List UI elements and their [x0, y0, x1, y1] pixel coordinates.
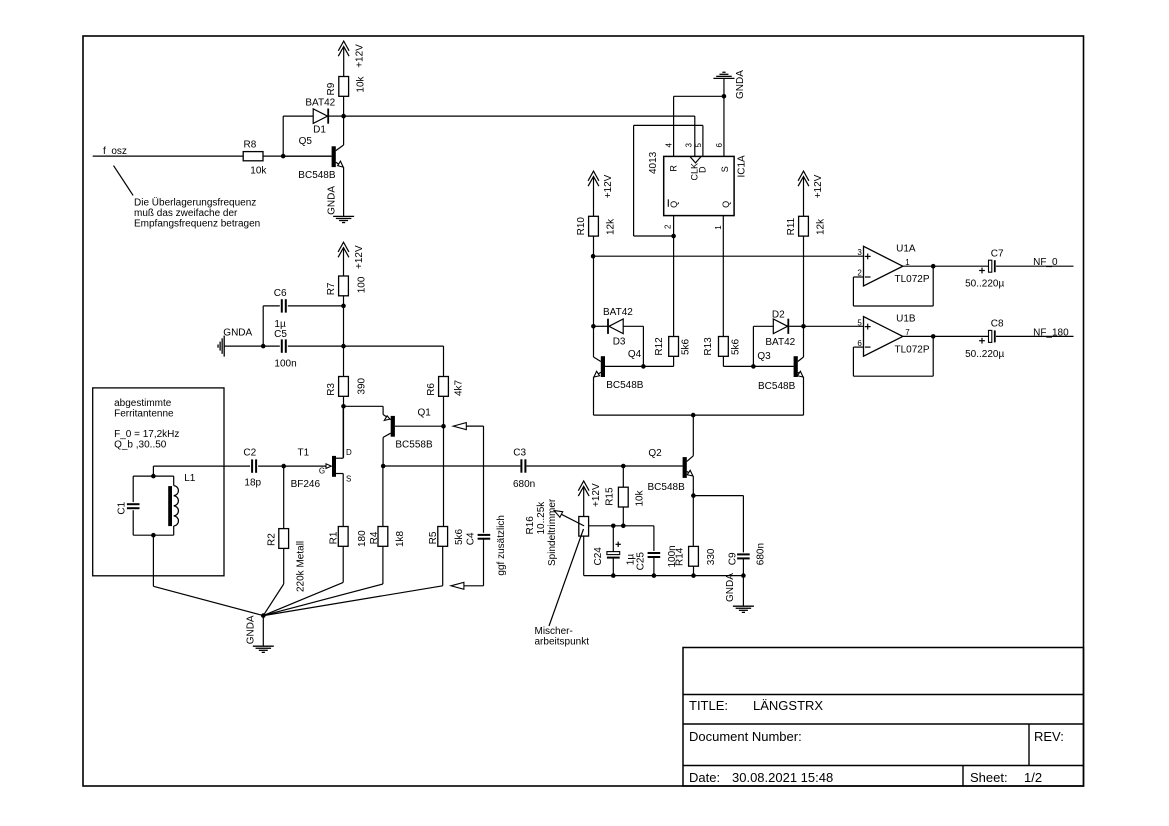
svg-text:2: 2 [857, 269, 862, 278]
svg-text:1: 1 [905, 258, 910, 267]
svg-text:1/2: 1/2 [1024, 770, 1042, 785]
pin 6 S [715, 96, 730, 172]
wire U1A inverting stub [853, 276, 863, 278]
svg-text:330: 330 [706, 548, 717, 565]
junction tank top [151, 474, 156, 479]
svg-text:REV:: REV: [1034, 729, 1064, 744]
node NF_0 [1033, 257, 1058, 268]
svg-text:R: R [668, 165, 678, 172]
supply +12V at R9 [338, 41, 365, 76]
junction D1/R9/Q5 collector [341, 114, 346, 119]
svg-text:Mischer-: Mischer- [535, 626, 573, 637]
tank bottom rail [133, 534, 174, 536]
wire C5 right [288, 345, 344, 347]
junction rail/Q2 collector [691, 413, 696, 418]
wire R15 to wiper line [622, 507, 624, 526]
svg-text:50..220µ: 50..220µ [965, 349, 1004, 360]
svg-text:Empfangsfrequenz betragen: Empfangsfrequenz betragen [134, 219, 260, 230]
ground GNDA at IC [713, 70, 745, 99]
wire C3 to Q2 base [526, 465, 682, 467]
svg-text:R9: R9 [326, 82, 337, 95]
svg-text:10..25k: 10..25k [536, 501, 547, 535]
junction R3 bottom [341, 404, 346, 409]
svg-text:C6: C6 [274, 288, 287, 299]
svg-text:D2: D2 [772, 310, 785, 321]
resistor R11 [786, 216, 826, 236]
svg-text:f_osz: f_osz [103, 146, 127, 157]
wire R12 to base line [605, 356, 674, 366]
svg-text:C1: C1 [116, 501, 127, 514]
svg-text:R13: R13 [703, 337, 714, 356]
wire junction up to D1 anode [283, 116, 313, 156]
diode D1 [305, 98, 335, 136]
wire R16 wiper [589, 525, 654, 527]
resistor R7 [326, 276, 367, 296]
svg-text:Ferritantenne: Ferritantenne [114, 408, 174, 419]
svg-text:Q5: Q5 [299, 136, 313, 147]
wire C6 right [288, 305, 344, 307]
capacitor C6 [274, 288, 287, 330]
svg-text:R14: R14 [675, 547, 686, 566]
wire tank to star ground [153, 535, 263, 615]
capacitor C4 [466, 515, 507, 576]
junction D3 cathode [591, 324, 596, 329]
wire R15 [622, 466, 624, 487]
mixer bottom rail [584, 575, 744, 577]
wire C7 to NF_0 [996, 265, 1074, 267]
resistor R5 [428, 527, 465, 547]
svg-text:180: 180 [357, 530, 368, 547]
wire to D3 [594, 325, 609, 327]
wire emitter rail [594, 414, 804, 416]
svg-text:R10: R10 [576, 217, 587, 236]
sheet text [970, 770, 1042, 785]
supply +12V at R16 [578, 481, 602, 517]
svg-text:+12V: +12V [813, 174, 824, 198]
junction R15 bottom [621, 524, 626, 529]
wire Q2 emitter [692, 476, 694, 546]
tank top rail [133, 475, 174, 477]
svg-text:C8: C8 [991, 319, 1004, 330]
wire Q3 base [753, 365, 793, 367]
note leader line [114, 166, 134, 196]
svg-text:Q4: Q4 [628, 349, 642, 360]
svg-text:abgestimmte: abgestimmte [114, 398, 172, 409]
resistor R13 [703, 337, 741, 357]
transistor Q3 [757, 326, 803, 392]
resistor R12 [654, 337, 692, 357]
svg-text:Spindeltrimmer: Spindeltrimmer [547, 498, 558, 566]
wire Q1 collector to C3 [383, 465, 520, 467]
jfet T1 [291, 406, 352, 526]
wire C9 to ground [742, 576, 744, 607]
svg-text:C5: C5 [274, 329, 287, 340]
svg-text:18p: 18p [244, 478, 261, 489]
svg-text:4013: 4013 [648, 151, 659, 174]
wire f_osz to R8 [93, 155, 244, 157]
wire C4 lower [458, 539, 484, 586]
svg-text:680n: 680n [756, 543, 767, 565]
svg-text:R16: R16 [525, 516, 536, 535]
wire D3 anode to base [623, 326, 643, 366]
node NF_180 [1033, 327, 1069, 338]
junction Q3 base [751, 364, 756, 369]
antenna box [93, 388, 224, 576]
supply +12V at R7 [338, 242, 365, 276]
wire to C9 [693, 496, 743, 553]
svg-text:TL072P: TL072P [895, 344, 930, 355]
wire U1B inverting stub [853, 346, 863, 348]
svg-text:7: 7 [905, 328, 910, 337]
svg-text:BC548B: BC548B [606, 380, 644, 391]
junction C24 bottom [611, 573, 616, 578]
wire D feedback [634, 125, 703, 236]
transistor Q2 [648, 415, 694, 493]
svg-text:3: 3 [857, 248, 862, 257]
resistor R9 [326, 75, 367, 96]
transistor Q4 [594, 326, 644, 391]
wire Q1 base [395, 425, 444, 427]
transistor Q5 [298, 116, 343, 181]
junction U1A output [931, 264, 936, 269]
pin 3 CLK [685, 143, 700, 181]
wire U1A feedback [853, 266, 933, 306]
resistor R6 [426, 377, 464, 397]
svg-text:C7: C7 [991, 249, 1004, 260]
junction R10/opamp line [591, 254, 596, 259]
svg-text:4: 4 [665, 143, 674, 148]
svg-text:R6: R6 [426, 383, 437, 396]
wire R16 bottom [583, 536, 585, 576]
svg-text:BF246: BF246 [291, 479, 321, 490]
svg-text:R15: R15 [605, 487, 616, 506]
svg-text:D: D [697, 166, 707, 173]
svg-text:Die Überlagerungsfrequenz: Die Überlagerungsfrequenz [134, 197, 256, 209]
svg-text:1k8: 1k8 [395, 530, 406, 547]
svg-text:C9: C9 [728, 552, 739, 565]
wire R2 to star ground [263, 548, 283, 615]
capacitor C1 [116, 476, 139, 535]
svg-text:100: 100 [356, 276, 367, 293]
svg-text:6: 6 [715, 143, 724, 148]
wire R9 to junction [343, 96, 345, 116]
diode D3 [603, 307, 633, 348]
svg-text:5k6: 5k6 [454, 528, 465, 545]
svg-text:NF_0: NF_0 [1033, 257, 1058, 268]
capacitor C9 [728, 543, 767, 576]
title block frame [683, 648, 1084, 787]
capacitor C5 [274, 329, 297, 370]
wire R4 top [382, 466, 384, 527]
junction C9 bottom [741, 573, 746, 578]
svg-text:LÄNGSTRX: LÄNGSTRX [753, 698, 823, 713]
capacitor C25 [636, 526, 678, 576]
wire R3 to T1 drain [343, 396, 345, 457]
junction R14 bottom [691, 573, 696, 578]
svg-text:+12V: +12V [354, 245, 365, 269]
resistor R15 [605, 487, 646, 507]
svg-text:Q1: Q1 [418, 408, 432, 419]
antenna text [114, 398, 179, 451]
pin 1 Q [714, 201, 731, 337]
resistor R4 [369, 527, 406, 548]
junction C24 top [611, 524, 616, 529]
svg-text:TITLE:: TITLE: [689, 698, 728, 713]
svg-text:Sheet:: Sheet: [970, 770, 1008, 785]
trimmer R16 [525, 498, 589, 566]
date text [689, 770, 833, 785]
wire U1A output [903, 265, 989, 267]
IC1A clk chevron [690, 156, 701, 163]
svg-text:30.08.2021 15:48: 30.08.2021 15:48 [732, 770, 833, 785]
svg-text:5: 5 [694, 143, 703, 148]
wire R8 to base junction [263, 155, 332, 157]
wire D1 cathode to junction [329, 115, 344, 117]
junction U1B output [931, 334, 936, 339]
junction Q1 base/R6/R5 [441, 424, 446, 429]
resistor R10 [576, 216, 616, 236]
junction base Q5 [281, 154, 286, 159]
svg-text:R8: R8 [244, 139, 257, 150]
svg-text:C3: C3 [513, 447, 526, 458]
svg-text:NF_180: NF_180 [1033, 327, 1069, 338]
svg-text:T1: T1 [298, 448, 310, 459]
svg-text:L1: L1 [184, 473, 196, 484]
supply +12V at R11 [798, 171, 824, 216]
svg-text:Date:: Date: [689, 770, 720, 785]
svg-text:BAT42: BAT42 [765, 337, 795, 348]
svg-text:GNDA: GNDA [327, 186, 338, 215]
wire U1B output [903, 335, 989, 337]
wire U1B feedback [853, 336, 933, 376]
drawing frame [83, 36, 1084, 786]
svg-text:Q: Q [669, 201, 679, 208]
wire R10 to junction [593, 236, 595, 256]
svg-text:2: 2 [663, 224, 672, 229]
wire C6 left [263, 306, 280, 346]
wire base up to D2 [753, 326, 773, 366]
svg-text:GNDA: GNDA [735, 70, 746, 99]
junction R2 top [281, 464, 286, 469]
wire Qbar to R12 [673, 236, 675, 337]
resistor R3 [326, 377, 367, 397]
note text [134, 197, 260, 230]
svg-text:D3: D3 [613, 337, 626, 348]
junction Q4 base [641, 364, 646, 369]
capacitor C24 [593, 526, 637, 576]
junction S/GNDA [722, 94, 727, 99]
wire C8 to NF_180 [996, 335, 1074, 337]
svg-text:G: G [319, 467, 325, 476]
svg-text:3: 3 [685, 143, 694, 148]
wire to U1A noninverting [593, 255, 863, 257]
ground GNDA star [245, 615, 273, 652]
svg-text:Document Number:: Document Number: [689, 729, 802, 744]
supply +12V at R10 [588, 171, 614, 216]
svg-text:10k: 10k [356, 75, 367, 92]
wire Q1 collector junction [381, 464, 386, 469]
svg-text:Q_b ,30..50: Q_b ,30..50 [114, 440, 167, 451]
wire R2 top [283, 466, 285, 528]
text Mischerarbeitspunkt [535, 626, 590, 648]
svg-text:+12V: +12V [603, 174, 614, 198]
wire R5 to star ground [263, 546, 442, 615]
svg-text:BAT42: BAT42 [305, 98, 335, 109]
svg-text:12k: 12k [816, 218, 827, 235]
svg-text:TL072P: TL072P [895, 274, 930, 285]
svg-text:Q: Q [721, 201, 731, 208]
capacitor C7 [965, 249, 1004, 290]
pin 2 Qbar [663, 199, 679, 236]
resistor R1 [328, 527, 368, 548]
svg-text:+12V: +12V [354, 44, 365, 68]
svg-text:Q3: Q3 [757, 351, 771, 362]
capacitor C2 [243, 447, 261, 488]
svg-text:R2: R2 [266, 533, 277, 546]
wire C5 left [224, 345, 280, 347]
transistor Q1 [383, 408, 433, 467]
svg-text:R12: R12 [654, 337, 665, 356]
resistor R8 [243, 139, 267, 176]
svg-text:12k: 12k [606, 218, 617, 235]
wire D2 junction to U1B [804, 325, 864, 327]
junction tank bottom [151, 533, 156, 538]
wire Q5 emitter to ground [343, 167, 345, 216]
arrow C4 lower [451, 582, 464, 589]
svg-text:D: D [346, 448, 352, 457]
svg-text:10k: 10k [635, 489, 646, 506]
inductor L1 [168, 473, 196, 535]
wire R14 bottom [693, 566, 695, 576]
svg-text:R1: R1 [328, 531, 339, 544]
resistor R2 [266, 529, 306, 592]
junction Q2 emitter/C9 [691, 493, 696, 498]
wire R1 to star ground [263, 546, 343, 615]
svg-text:100n: 100n [274, 359, 296, 370]
junction C6 line [341, 304, 346, 309]
wire tank to C2 [153, 466, 250, 476]
svg-text:ggf zusätzlich: ggf zusätzlich [496, 515, 507, 576]
op-amp U1B [857, 314, 930, 357]
op-amp U1A [857, 243, 930, 286]
document number text [689, 729, 1064, 744]
svg-text:5k6: 5k6 [681, 338, 692, 355]
junction C25 bottom [652, 573, 657, 578]
svg-text:10k: 10k [250, 166, 267, 177]
svg-text:GNDA: GNDA [245, 615, 256, 644]
svg-text:R11: R11 [786, 217, 797, 235]
capacitor C3 [513, 447, 535, 490]
pin 5 D [694, 125, 708, 173]
svg-text:U1B: U1B [896, 314, 916, 325]
wire Q3 emitter down [803, 377, 805, 415]
svg-text:390: 390 [356, 377, 367, 394]
svg-text:R7: R7 [326, 282, 337, 295]
svg-text:BC548B: BC548B [758, 381, 796, 392]
IC1A box [648, 151, 748, 215]
svg-text:220k Metall: 220k Metall [296, 541, 307, 592]
wire R6 junction to R5 [443, 426, 445, 526]
svg-text:GNDA: GNDA [725, 573, 736, 602]
node f_osz [103, 146, 127, 157]
wire R10 junction down [593, 256, 595, 326]
svg-text:+12V: +12V [591, 483, 602, 507]
svg-text:C25: C25 [636, 552, 647, 571]
svg-text:BC548B: BC548B [648, 482, 686, 493]
svg-text:GNDA: GNDA [223, 328, 252, 339]
wire R11 to D2 junction [803, 236, 805, 326]
wire C5 line to R6 [344, 346, 444, 376]
svg-text:R4: R4 [369, 531, 380, 544]
svg-text:D1: D1 [313, 124, 326, 135]
arrow C4 upper [453, 423, 483, 533]
title text [689, 698, 823, 713]
ground GNDA mixer [725, 573, 754, 613]
svg-text:muß das zweifache der: muß das zweifache der [134, 208, 238, 219]
pin 4 R [665, 96, 679, 171]
svg-text:S: S [346, 474, 351, 483]
junction Qbar/D [671, 234, 676, 239]
junction D2/R11/U1B [801, 324, 806, 329]
svg-text:BAT42: BAT42 [603, 307, 633, 318]
svg-text:BC558B: BC558B [395, 440, 433, 451]
svg-text:5k6: 5k6 [730, 338, 741, 355]
wire C2 to gate [258, 465, 327, 467]
junction GNDA branch [261, 344, 266, 349]
svg-text:U1A: U1A [896, 243, 916, 254]
wire R3 junction to Q1 emitter [344, 406, 384, 414]
star ground node [261, 613, 266, 646]
svg-text:50..220µ: 50..220µ [965, 279, 1004, 290]
svg-text:R3: R3 [326, 383, 337, 396]
resistor R14 [675, 546, 718, 566]
wire R4 to star ground [263, 546, 383, 615]
svg-text:S: S [720, 166, 730, 172]
svg-text:Q2: Q2 [648, 448, 662, 459]
junction R15 top [621, 464, 626, 469]
junction C5 line [341, 344, 346, 349]
svg-text:4k7: 4k7 [453, 379, 464, 396]
diode D2 [765, 310, 795, 349]
wire Q4 emitter down [593, 377, 595, 415]
ground GNDA left [218, 328, 252, 357]
svg-text:680n: 680n [513, 479, 535, 490]
wire R to S gnd [674, 95, 724, 97]
svg-text:BC548B: BC548B [298, 170, 336, 181]
wire R6 down [443, 396, 445, 426]
svg-text:1: 1 [714, 225, 723, 230]
wire R7 down [343, 296, 345, 377]
svg-text:C24: C24 [593, 547, 604, 566]
svg-text:IC1A: IC1A [737, 155, 748, 178]
svg-text:C4: C4 [466, 532, 477, 545]
capacitor C8 [965, 319, 1004, 360]
pointer line Mischerarbeitspunkt [549, 529, 584, 626]
wire oscillator to CLK [344, 116, 695, 156]
svg-text:C2: C2 [243, 447, 256, 458]
wire D2 cathode to junction [789, 325, 803, 327]
wire Q5 base [283, 155, 331, 157]
wire R13 to base line [723, 356, 753, 366]
svg-text:arbeitspunkt: arbeitspunkt [535, 637, 590, 648]
svg-text:R5: R5 [428, 531, 439, 544]
ground GNDA Q5 [327, 186, 354, 223]
